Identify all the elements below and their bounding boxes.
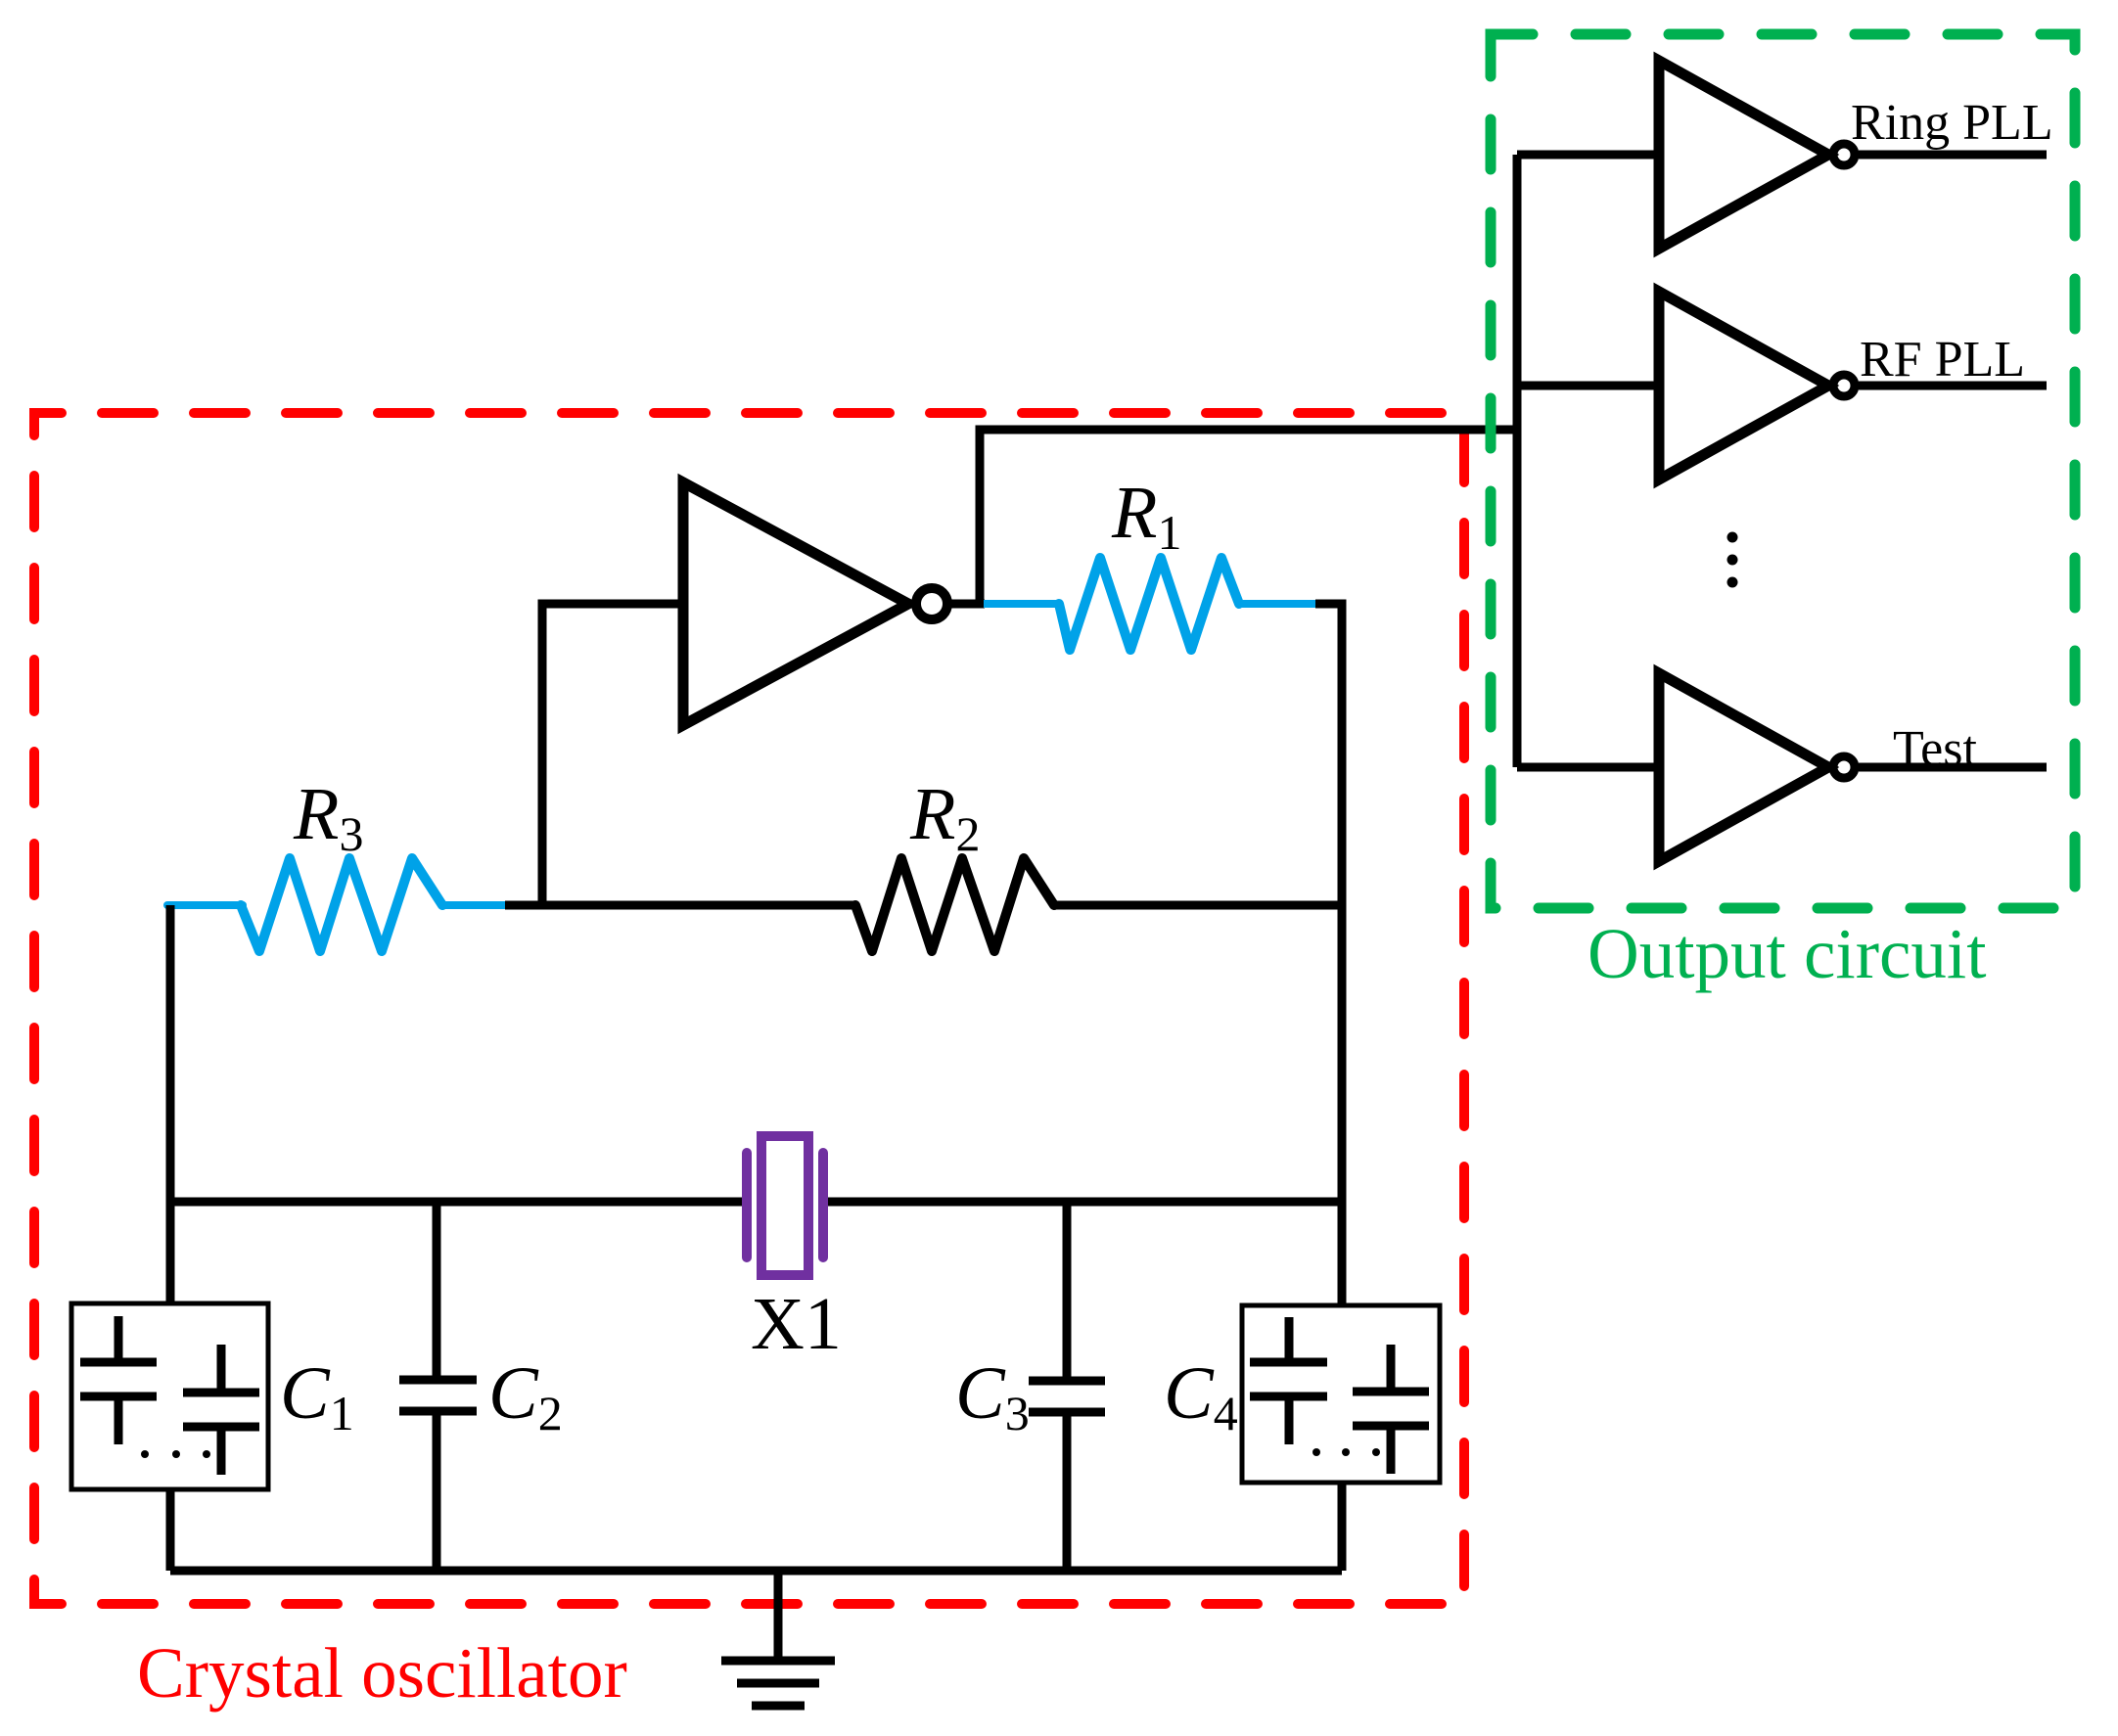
resistor R3 (blue) xyxy=(167,901,243,909)
wire: Test inverter input xyxy=(1517,763,1659,772)
wire: R2 row right segment xyxy=(1054,901,1342,910)
svg-text:Ring PLL: Ring PLL xyxy=(1851,95,2053,151)
wire: Ring PLL output xyxy=(1859,151,2047,160)
svg-text:RF PLL: RF PLL xyxy=(1860,332,2025,388)
capacitor C3 bottom stem xyxy=(1063,1412,1072,1571)
RF PLL inverter bubble xyxy=(1833,375,1855,396)
ground stem xyxy=(774,1571,783,1658)
crystal oscillator dashed box xyxy=(34,413,1464,1604)
ground bars xyxy=(721,1661,835,1706)
Test inverter bubble xyxy=(1833,756,1855,778)
crystal X1 right electrode xyxy=(818,1153,828,1257)
wire: output circuit bus xyxy=(1513,155,1522,767)
C1 bottom stem xyxy=(166,1489,175,1571)
C1 right cell capacitor xyxy=(183,1345,259,1475)
wire: left vertical rail xyxy=(166,905,175,1303)
C4 right cell capacitor xyxy=(1353,1345,1429,1474)
C4 bottom stem xyxy=(1338,1483,1347,1571)
crystal X1 left electrode xyxy=(742,1153,752,1257)
C1 dots xyxy=(141,1450,149,1458)
wire: RF PLL inverter input xyxy=(1517,382,1659,390)
wire: output riser to output circuit xyxy=(980,430,1517,604)
C4 dots xyxy=(1312,1448,1320,1456)
capacitor C2 top stem xyxy=(433,1202,441,1380)
wire: bubble to R1 xyxy=(947,600,985,609)
C4 left cell capacitor xyxy=(1250,1317,1327,1444)
svg-text:Crystal oscillator: Crystal oscillator xyxy=(137,1633,627,1713)
capacitor C2 plates xyxy=(399,1380,477,1411)
wire: crystal row right xyxy=(828,1198,1342,1207)
svg-text:X1: X1 xyxy=(751,1283,842,1365)
resistor R2 xyxy=(855,858,1054,951)
output circuit dashed box xyxy=(1491,34,2075,908)
capacitor bank C4 box xyxy=(1242,1305,1440,1483)
wire: R2 row left segment xyxy=(505,901,855,910)
Test inverter triangle xyxy=(1659,673,1828,861)
wire: RF PLL output xyxy=(1859,382,2047,390)
capacitor C2 bottom stem xyxy=(433,1411,441,1571)
crystal X1 body xyxy=(761,1136,808,1275)
capacitor C3 plates xyxy=(1029,1381,1105,1412)
capacitor C3 top stem xyxy=(1063,1202,1072,1381)
C1 left cell capacitor xyxy=(80,1316,157,1444)
inverter U1 bubble xyxy=(916,588,947,619)
resistor R1 (blue) xyxy=(984,600,1061,608)
op-amp U1 inverter triangle xyxy=(683,482,908,725)
wire: bottom ground rail xyxy=(170,1567,1342,1576)
Ring PLL inverter bubble xyxy=(1833,144,1855,165)
ellipsis dots xyxy=(1727,532,1738,543)
wire: Ring PLL inverter input xyxy=(1517,151,1659,160)
wire: inverter input and feedback drop xyxy=(542,604,683,905)
svg-text:Test: Test xyxy=(1893,721,1977,777)
wire: R1 right lead and right vertical rail xyxy=(1315,604,1342,1305)
svg-text:Output circuit: Output circuit xyxy=(1588,914,1987,993)
wire: crystal row left xyxy=(170,1198,742,1207)
wire: Test output xyxy=(1859,763,2047,772)
RF PLL inverter triangle xyxy=(1659,292,1828,480)
Ring PLL inverter triangle xyxy=(1659,61,1828,249)
capacitor bank C1 box xyxy=(71,1303,268,1489)
